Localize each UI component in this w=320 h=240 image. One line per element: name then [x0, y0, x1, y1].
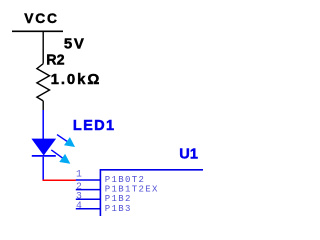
svg-text:1.0kΩ: 1.0kΩ — [51, 71, 102, 88]
U1 pin 3 stub — [76, 198, 101, 200]
LED1 light arrow 1 head — [64, 137, 75, 147]
wire VCC stem to resistor — [42, 31, 44, 63]
svg-text:U1: U1 — [179, 146, 198, 162]
svg-text:P1B1T2EX: P1B1T2EX — [105, 185, 159, 195]
U1 pin 2 stub — [76, 189, 101, 191]
wire resistor to LED anode (blue net) — [42, 110, 44, 140]
LED1 light arrow 2 head — [59, 154, 70, 164]
wire to U1 pin 1 (red net) — [43, 179, 76, 181]
svg-text:5V: 5V — [64, 35, 86, 52]
svg-text:P1B0T2: P1B0T2 — [105, 175, 145, 185]
power rail bar VCC — [12, 30, 63, 32]
U1 pin 4 stub — [76, 208, 101, 210]
svg-text:R2: R2 — [46, 53, 64, 69]
U1 pin 1 stub — [76, 179, 101, 181]
svg-text:P1B3: P1B3 — [105, 204, 132, 214]
svg-text:LED1: LED1 — [73, 118, 116, 134]
svg-text:P1B2: P1B2 — [105, 194, 132, 204]
wire LED cathode down (blue net) — [42, 157, 44, 180]
LED1 light arrow 1 shaft — [57, 135, 69, 143]
LED1 diode triangle (anode) — [32, 139, 55, 155]
svg-text:4: 4 — [76, 200, 82, 211]
resistor R2 zigzag — [37, 64, 50, 101]
svg-text:1: 1 — [76, 168, 82, 179]
svg-text:VCC: VCC — [24, 11, 59, 26]
LED1 cathode bar — [32, 155, 56, 157]
LED1 light arrow 2 shaft — [51, 150, 64, 159]
U1 box outline — [100, 170, 204, 217]
resistor bottom pin (black) — [42, 101, 44, 110]
